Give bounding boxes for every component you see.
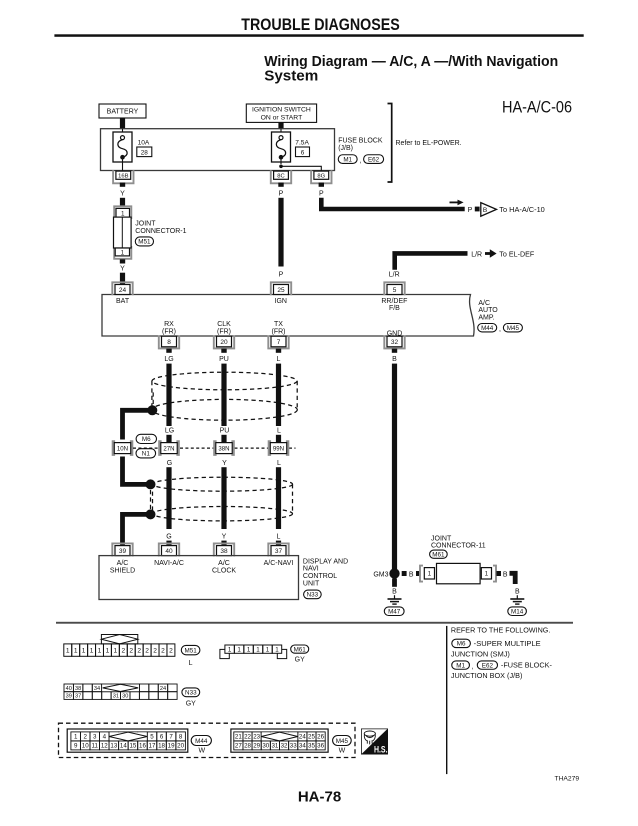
svg-text:ON or START: ON or START: [261, 114, 303, 121]
terminal 40: [159, 543, 179, 556]
svg-text:Y: Y: [120, 266, 125, 273]
svg-text:2: 2: [129, 648, 133, 655]
svg-text:A/C: A/C: [218, 560, 230, 567]
label To EL-DEF: [499, 251, 534, 258]
label FUSE BLOCK (J/B): [338, 137, 383, 152]
svg-text:G: G: [166, 534, 171, 541]
note JUNCTION BOX (J/B): [451, 673, 523, 680]
label W under M45 oval: [339, 747, 346, 754]
wire label L above 37: [277, 534, 281, 541]
svg-text:1: 1: [114, 648, 118, 655]
wire stub above terminal 37: [276, 541, 281, 547]
svg-text:39: 39: [119, 548, 127, 555]
svg-text:(FR): (FR): [217, 328, 231, 335]
label CLK (FR): [217, 321, 231, 335]
label A/C CLOCK: [212, 560, 236, 574]
svg-text:25: 25: [308, 734, 315, 741]
svg-text:10A: 10A: [138, 139, 150, 146]
direction arrow on wire: [450, 200, 464, 206]
svg-text:16: 16: [139, 743, 146, 750]
svg-text:16B: 16B: [118, 173, 128, 179]
svg-text:JUNCTION (SMJ): JUNCTION (SMJ): [451, 652, 510, 659]
wire stub above terminal 38: [221, 541, 226, 547]
wire Y to joint connector-1: [120, 198, 125, 206]
svg-text:1: 1: [66, 648, 70, 655]
wire stub below 16B: [120, 183, 125, 187]
svg-text:1: 1: [275, 646, 279, 653]
svg-text:E62: E62: [482, 662, 494, 669]
svg-text:THA279: THA279: [555, 776, 580, 783]
svg-text:Y: Y: [120, 191, 125, 198]
solid arrow to EL-DEF: [485, 249, 497, 258]
svg-text:27N: 27N: [163, 445, 174, 452]
svg-text:GM3: GM3: [373, 571, 388, 578]
svg-text:20: 20: [220, 339, 228, 346]
svg-text:22: 22: [244, 734, 251, 741]
svg-text:1: 1: [82, 648, 86, 655]
svg-text:1: 1: [266, 646, 270, 653]
svg-text:1: 1: [121, 210, 125, 217]
svg-text:N1: N1: [142, 451, 151, 458]
pin 8C: [271, 170, 291, 183]
wire stub below terminal 20: [221, 349, 226, 353]
svg-text:JUNCTION BOX (J/B): JUNCTION BOX (J/B): [451, 673, 523, 680]
svg-text:UNIT: UNIT: [303, 581, 320, 588]
connector M47 oval: [384, 607, 404, 616]
connector E62 oval: [364, 155, 384, 164]
svg-text:AMP.: AMP.: [478, 314, 494, 321]
connector M14 oval: [508, 607, 527, 616]
wire L segment: [276, 467, 281, 529]
svg-text:1: 1: [98, 648, 102, 655]
svg-text:25: 25: [277, 287, 285, 294]
wire label PU: [219, 356, 229, 363]
fuse 10A rating label: [138, 139, 150, 146]
svg-text:CONNECTOR-11: CONNECTOR-11: [431, 543, 486, 550]
label To HA-A/C-10: [499, 207, 545, 214]
svg-text:24: 24: [299, 734, 306, 741]
wire CLK PU: [221, 364, 226, 426]
svg-text:40: 40: [165, 548, 173, 555]
svg-text:Y: Y: [222, 534, 227, 541]
svg-text:2: 2: [161, 648, 165, 655]
connector N33 oval: [304, 590, 322, 599]
svg-text:30: 30: [262, 743, 269, 750]
shield drain dot 2: [146, 479, 156, 489]
svg-text:1: 1: [228, 646, 232, 653]
display and navi control unit box: [99, 556, 299, 600]
svg-text:37: 37: [75, 694, 81, 700]
ground node GM3 dot: [389, 568, 399, 578]
svg-text:M45: M45: [336, 738, 349, 745]
pin 16B: [113, 170, 133, 183]
shield ring lower 1: [152, 399, 298, 420]
svg-text:B: B: [515, 589, 520, 596]
terminal 10N: [113, 441, 133, 455]
terminal 20: [214, 335, 234, 348]
svg-text:2: 2: [145, 648, 149, 655]
svg-text:36: 36: [317, 743, 324, 750]
svg-text:34: 34: [94, 686, 100, 692]
svg-text:,: ,: [499, 326, 501, 333]
label A/C AUTO AMP.: [478, 300, 498, 321]
connector E62 oval in notes: [477, 661, 497, 669]
svg-text:13: 13: [110, 743, 117, 750]
svg-text:BAT: BAT: [116, 298, 130, 305]
wire label L below 99N: [277, 460, 281, 467]
svg-text:28: 28: [141, 149, 149, 156]
svg-text:B: B: [483, 207, 487, 214]
connector view M45: [231, 729, 328, 752]
svg-text:24: 24: [160, 686, 166, 692]
svg-text:M6: M6: [457, 641, 466, 648]
svg-text:2: 2: [169, 648, 173, 655]
svg-text:B: B: [392, 356, 397, 363]
svg-text:19: 19: [168, 743, 175, 750]
label GY under M61 oval: [295, 656, 305, 663]
connector M45 view oval: [333, 736, 352, 746]
page header: TROUBLE DIAGNOSES: [241, 15, 399, 34]
svg-text:LG: LG: [165, 428, 174, 435]
svg-text:35: 35: [308, 743, 315, 750]
svg-text:L: L: [277, 356, 281, 363]
svg-text:TX: TX: [274, 321, 283, 328]
svg-text:7: 7: [169, 734, 173, 741]
connector view N33 cells: [64, 684, 177, 700]
shield ring lower 2: [153, 507, 293, 521]
shield ring upper 1: [152, 372, 297, 390]
svg-text:24: 24: [119, 287, 127, 294]
label TX (FR): [272, 321, 286, 335]
wire label LG above 27N: [165, 428, 174, 435]
svg-text:26: 26: [317, 734, 324, 741]
svg-text:11: 11: [92, 743, 99, 750]
svg-text:38: 38: [220, 548, 228, 555]
label IGN: [275, 298, 287, 305]
svg-text:Y: Y: [222, 460, 227, 467]
note JUNCTION (SMJ): [451, 652, 510, 659]
svg-text:12: 12: [101, 743, 108, 750]
connector M1 oval in notes: [452, 661, 470, 669]
wire RX LG: [166, 364, 171, 426]
wire label G above 40: [166, 534, 171, 541]
wire TX L: [276, 364, 281, 426]
svg-text:NAVI: NAVI: [303, 566, 319, 573]
label BAT: [116, 298, 130, 305]
svg-text:1: 1: [485, 571, 489, 578]
svg-text:LG: LG: [164, 356, 173, 363]
svg-text:20: 20: [177, 743, 184, 750]
fuse 10A: [113, 129, 132, 173]
svg-text:RR/DEF: RR/DEF: [381, 298, 407, 305]
svg-text:M61: M61: [294, 646, 307, 653]
connector view M44: [67, 729, 188, 752]
wire label Y above 38: [222, 534, 227, 541]
svg-text:BATTERY: BATTERY: [107, 109, 139, 116]
terminal 99N: [269, 441, 289, 455]
svg-text:M61: M61: [432, 551, 445, 558]
wire B to GM3: [392, 364, 397, 569]
svg-text:14: 14: [120, 743, 127, 750]
svg-text:1: 1: [247, 646, 251, 653]
svg-text:1: 1: [121, 249, 125, 256]
svg-text:9: 9: [74, 743, 78, 750]
svg-text:3: 3: [93, 734, 97, 741]
svg-text:2: 2: [83, 734, 87, 741]
label GM3: [373, 571, 388, 578]
wire label Y: [120, 191, 125, 198]
svg-text:M14: M14: [511, 608, 524, 615]
svg-text:10: 10: [82, 743, 89, 750]
wire stub above 38N: [221, 435, 226, 443]
terminal 39: [112, 543, 132, 556]
svg-text:7.5A: 7.5A: [295, 139, 309, 146]
svg-text:JOINT: JOINT: [431, 535, 452, 542]
in-line square left of JC-11: [416, 571, 421, 576]
terminal 38N: [214, 441, 234, 455]
connector N1 oval: [136, 449, 156, 458]
wire label L above 99N: [277, 428, 281, 435]
svg-text:M45: M45: [507, 325, 520, 332]
svg-text:F/B: F/B: [389, 305, 400, 312]
wire label P below 8C: [279, 191, 284, 198]
svg-text:To HA-A/C-10: To HA-A/C-10: [499, 207, 545, 214]
svg-text:1: 1: [237, 646, 241, 653]
connector M51 oval: [135, 237, 153, 246]
wire battery to fuse block: [120, 118, 125, 129]
svg-text:P: P: [319, 191, 324, 198]
svg-text:39: 39: [66, 694, 72, 700]
connector M6 oval: [136, 434, 156, 443]
shield side links 2: [153, 484, 293, 514]
H.S. harness mark: [361, 729, 388, 755]
svg-text:P: P: [468, 207, 473, 214]
svg-text:21: 21: [235, 734, 242, 741]
bracket for EL-POWER reference: [388, 104, 392, 183]
svg-text:AUTO: AUTO: [478, 307, 498, 314]
wire stub above terminal 40: [166, 541, 171, 547]
svg-text:37: 37: [275, 548, 283, 555]
in-line square right of JC-11: [496, 571, 501, 576]
svg-text:33: 33: [290, 743, 297, 750]
wire Y segment: [221, 467, 226, 529]
svg-text:RX: RX: [164, 321, 174, 328]
wire P elbow to HA-A/C-10: [321, 198, 464, 209]
svg-text:15: 15: [129, 743, 136, 750]
svg-text:1: 1: [74, 648, 78, 655]
figure number THA279: [555, 776, 580, 783]
svg-text:M1: M1: [456, 662, 465, 669]
connector view M51 cells: [64, 644, 175, 656]
header rule: [54, 34, 583, 37]
terminal 8: [159, 335, 179, 348]
svg-text:CLK: CLK: [217, 321, 231, 328]
wire elbow to ground M14: [510, 573, 516, 584]
svg-text:HA-A/C-06: HA-A/C-06: [502, 99, 572, 117]
wire Y to terminal 24: [120, 273, 125, 285]
svg-text:6: 6: [160, 734, 164, 741]
connector M44 view oval: [191, 736, 211, 746]
connector M51 view oval: [181, 645, 200, 654]
connector M45 oval: [503, 324, 522, 332]
comma between M1 and E62: [360, 158, 362, 165]
svg-text:4: 4: [103, 734, 107, 741]
svg-text:38N: 38N: [218, 445, 229, 452]
svg-text:L: L: [277, 534, 281, 541]
svg-text:B: B: [392, 589, 397, 596]
terminal 27N: [159, 441, 179, 455]
label L under M51 oval: [189, 660, 193, 667]
note FUSE BLOCK: [501, 663, 553, 670]
harness connector dashed box: [59, 723, 356, 757]
terminal 5: [384, 282, 404, 295]
svg-text:CLOCK: CLOCK: [212, 567, 236, 574]
wire L/R elbow: [395, 253, 468, 269]
note SUPER MULTIPLE: [474, 641, 541, 648]
svg-text:(FR): (FR): [272, 328, 286, 335]
svg-text:40: 40: [66, 686, 72, 692]
svg-text:G: G: [167, 460, 172, 467]
svg-text:,: ,: [472, 664, 474, 671]
svg-text:IGN: IGN: [275, 298, 287, 305]
connector M61 view oval: [291, 645, 309, 653]
svg-text:32: 32: [281, 743, 288, 750]
wire label LG: [164, 356, 173, 363]
wire stub above 27N: [166, 435, 171, 443]
svg-text:2: 2: [153, 648, 157, 655]
wire label B left of JC-11: [409, 571, 414, 578]
svg-text:H.S.: H.S.: [374, 744, 388, 754]
svg-text:M47: M47: [388, 608, 401, 615]
svg-text:M51: M51: [138, 239, 151, 246]
svg-text:L/R: L/R: [389, 271, 400, 278]
connector M61 oval: [430, 550, 448, 558]
svg-text:M1: M1: [343, 156, 352, 163]
fuse 7.5A rating label: [295, 139, 309, 146]
svg-text:N33: N33: [185, 690, 197, 697]
svg-text:M6: M6: [142, 436, 151, 443]
connector M44 oval: [478, 324, 497, 332]
svg-text:CONTROL: CONTROL: [303, 573, 337, 580]
connector view M51 guide: [101, 635, 137, 644]
svg-text:PU: PU: [219, 356, 229, 363]
svg-text:38: 38: [75, 686, 81, 692]
svg-text:17: 17: [149, 743, 156, 750]
svg-text:P: P: [279, 191, 284, 198]
svg-text:8: 8: [167, 339, 171, 346]
terminal 32: [384, 335, 404, 348]
battery box: [99, 104, 146, 118]
svg-text:5: 5: [393, 287, 397, 294]
in-line connector square: [475, 207, 480, 212]
page title: [264, 53, 558, 84]
fuse 10A number 28: [137, 147, 152, 157]
wire stub below 8G: [319, 183, 324, 187]
wire label P above terminal 25: [279, 271, 284, 278]
svg-text:2: 2: [121, 648, 125, 655]
terminal 37: [268, 543, 288, 556]
joint connector dashed bus: [133, 447, 296, 449]
wire label L/R above terminal 5: [389, 271, 400, 278]
terminal 24: [112, 282, 132, 295]
svg-text:7: 7: [277, 339, 281, 346]
separator rule: [56, 622, 573, 624]
wire label P at arrow: [468, 207, 473, 214]
label A/C-NAVI: [264, 560, 294, 567]
wire stub below joint connector-1: [120, 259, 125, 263]
wire label B above M14 ground: [515, 589, 520, 596]
label Refer to EL-POWER: [396, 140, 462, 147]
ground symbol M47: [388, 595, 402, 604]
svg-text:,: ,: [360, 158, 362, 165]
comma in notes: [472, 664, 474, 671]
shield drain dot 3: [146, 509, 156, 519]
svg-text:System: System: [264, 68, 318, 85]
svg-text:30: 30: [122, 694, 128, 700]
connector view M61 ears: [220, 649, 287, 658]
label RX (FR): [162, 321, 176, 335]
svg-text:CONNECTOR-1: CONNECTOR-1: [135, 228, 186, 235]
wire label G below 27N: [167, 460, 172, 467]
wire label L: [277, 356, 281, 363]
diagram code HA-A/C-06: [502, 99, 572, 117]
label GY under N33 oval: [186, 701, 196, 708]
svg-text:L: L: [277, 428, 281, 435]
svg-text:Refer to EL-POWER.: Refer to EL-POWER.: [396, 140, 462, 147]
A/C auto amp box: [102, 295, 474, 337]
svg-text:1: 1: [90, 648, 94, 655]
connector view M61 cells: [225, 645, 282, 653]
svg-text:-SUPER MULTIPLE: -SUPER MULTIPLE: [474, 641, 541, 648]
vertical separator: [446, 626, 447, 774]
svg-text:27: 27: [235, 743, 242, 750]
svg-text:M51: M51: [184, 647, 197, 654]
page number HA-78: [298, 789, 341, 806]
svg-text:6: 6: [301, 149, 305, 156]
svg-text:-FUSE BLOCK-: -FUSE BLOCK-: [501, 663, 553, 670]
connector M6 oval in notes: [452, 639, 471, 647]
svg-text:M44: M44: [481, 325, 494, 332]
label DISPLAY AND NAVI CONTROL UNIT: [303, 558, 348, 587]
svg-text:34: 34: [299, 743, 306, 750]
svg-text:31: 31: [271, 743, 278, 750]
svg-text:REFER TO THE FOLLOWING.: REFER TO THE FOLLOWING.: [451, 628, 551, 635]
svg-text:1: 1: [428, 571, 432, 578]
label RR/DEF F/B: [381, 298, 407, 312]
wire label B above M47 ground: [392, 589, 397, 596]
svg-text:HA-78: HA-78: [298, 789, 341, 806]
ignition switch box: [246, 104, 316, 122]
svg-text:8G: 8G: [317, 173, 325, 179]
svg-text:23: 23: [253, 734, 260, 741]
wire stub below terminal 7: [276, 349, 281, 353]
svg-text:A/C-NAVI: A/C-NAVI: [264, 560, 294, 567]
connector view N33 diamond: [102, 684, 139, 691]
svg-text:29: 29: [253, 743, 260, 750]
wire stub below terminal 32: [392, 349, 397, 353]
svg-text:PU: PU: [220, 428, 230, 435]
wire label L/R at arrow: [471, 251, 482, 258]
svg-text:99N: 99N: [273, 445, 284, 452]
wire label Y below 38N: [222, 460, 227, 467]
wire label P below 8G: [319, 191, 324, 198]
terminal 38: [214, 543, 234, 556]
svg-text:B: B: [503, 571, 508, 578]
connector M1 oval: [338, 155, 357, 164]
svg-text:1: 1: [74, 734, 78, 741]
shield ring upper 2: [153, 477, 293, 491]
svg-text:SHIELD: SHIELD: [110, 567, 135, 574]
